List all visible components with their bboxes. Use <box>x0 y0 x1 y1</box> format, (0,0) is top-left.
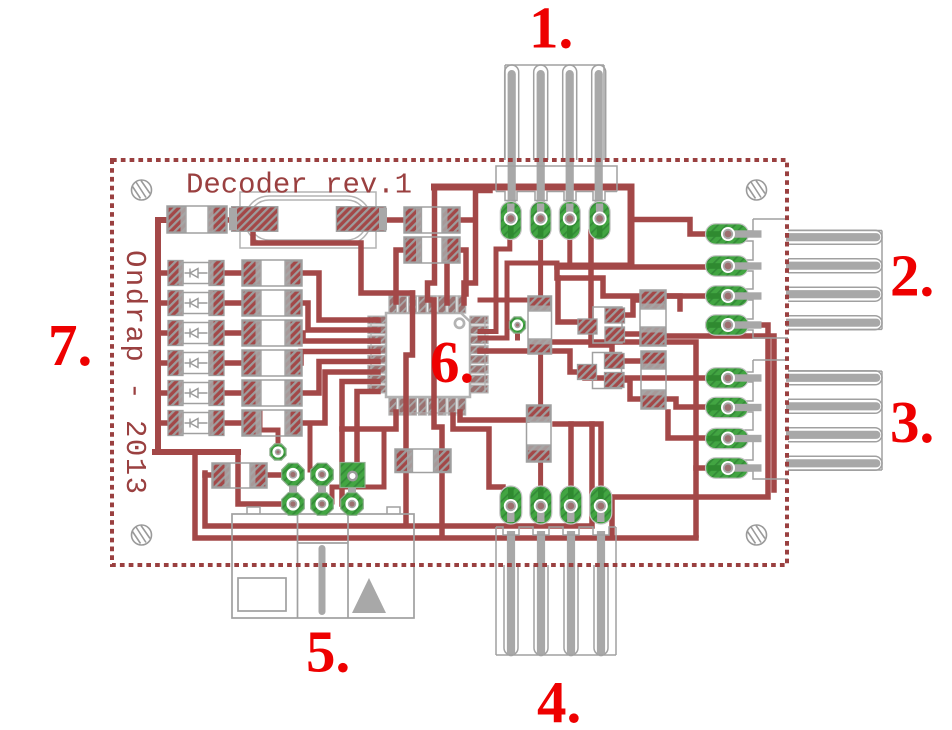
wire IC bottom to C2 <box>460 412 527 420</box>
wire D1 feed <box>158 270 168 276</box>
wire R8 feed <box>205 472 213 478</box>
wire GND bus left <box>158 220 168 452</box>
wire D6 to R7 <box>224 420 243 426</box>
wire R1 to crystal <box>226 217 232 223</box>
connector SV2 pins <box>786 230 882 330</box>
wire R5 to U1 pin <box>300 352 378 364</box>
connector SV4 pins <box>496 531 616 656</box>
wire D1 to R2 <box>224 270 243 276</box>
svg-text:6.: 6. <box>430 329 474 395</box>
resistor R3 <box>242 290 302 316</box>
wire T2 to R7a <box>621 358 642 364</box>
connector SV1 body <box>496 166 617 201</box>
wire IC bottom to SV4 pad1 <box>453 415 503 487</box>
pad X1 r1c1 <box>282 463 305 486</box>
transistor T2 <box>578 353 625 389</box>
wire right filler <box>665 336 774 490</box>
wire SV1 pad2 jog down <box>480 263 541 338</box>
crystal Q1 pads <box>229 207 387 232</box>
pad SV2-2 <box>706 256 762 277</box>
wire C1 bottom long right rail <box>541 342 696 535</box>
svg-text:4.: 4. <box>537 669 581 730</box>
pad SV3-1 <box>706 368 762 389</box>
pad X1 r1c3 square <box>340 463 365 488</box>
wire T1 to R6b <box>624 331 641 337</box>
capacitor C2 <box>527 405 552 462</box>
wire via1 to IC <box>515 329 520 338</box>
svg-text:5.: 5. <box>306 619 350 685</box>
resistor R2 <box>404 207 460 233</box>
wire D4 feed <box>158 360 168 366</box>
svg-text:Decoder rev.1: Decoder rev.1 <box>186 169 412 202</box>
wire D5 to R6 <box>224 390 243 396</box>
resistor R4 <box>242 320 302 346</box>
crystal Q1 outline <box>240 192 376 248</box>
pad SV2-1 <box>706 224 762 245</box>
diode D2 <box>168 291 224 316</box>
wire R3 to U1 pin <box>300 303 378 330</box>
wire junction to SV2 pad3 <box>557 267 708 296</box>
pad SV1-1 <box>500 202 521 240</box>
wire D6 feed <box>158 420 168 426</box>
resistor R3 <box>404 237 460 263</box>
drill hole H1 top-left <box>132 180 152 200</box>
wire R6 right stub <box>665 296 680 309</box>
wire SV1 pad2 to C1 <box>538 238 543 297</box>
wire IC bottom pin to left <box>342 412 396 429</box>
pad X1 r2c1 <box>282 493 305 516</box>
resistor R8 <box>212 463 267 488</box>
connector SV3 body <box>745 360 788 479</box>
wire to SV2 pad2 long <box>557 264 708 270</box>
wire SV1 pad4 stub <box>597 186 602 224</box>
op IC U1 pins <box>368 296 488 415</box>
wire SV4 pad4 up <box>592 424 601 487</box>
wire v2 crystal area through IC to R9 <box>428 187 443 535</box>
wire top rail horizontal <box>435 187 632 266</box>
resistor R9 <box>395 449 451 473</box>
connector SV2 body <box>745 219 788 338</box>
wire long bottom 1 <box>205 424 592 526</box>
diode D3 <box>168 321 224 346</box>
pad X1 gray links <box>289 475 356 505</box>
wire long bottom 2 <box>195 452 696 538</box>
pad X1 r2c3 <box>341 493 364 516</box>
wire R8 to pad r1c1 <box>266 472 283 478</box>
pad X1 r1c2 <box>311 463 334 486</box>
drill hole H3 bottom-left <box>132 525 152 545</box>
wire R2 to U1 pin <box>300 273 378 320</box>
wire SV1 pad2 jog right <box>541 263 557 267</box>
diode D5 <box>168 381 224 406</box>
wire R2 out <box>459 217 472 223</box>
svg-text:3.: 3. <box>890 389 934 455</box>
wire SV1 pad3 join rail <box>567 238 572 265</box>
wire crystal bottom to IC <box>253 229 413 293</box>
pad SV3-2 <box>706 397 762 418</box>
pad SV4-1 <box>500 486 522 524</box>
wire R3 right out <box>459 250 466 294</box>
wire U1 pin8 down to square pad <box>357 392 378 462</box>
connector SV3 pins <box>786 371 882 471</box>
wire SV4 pad3 up <box>568 424 574 487</box>
resistor R7 <box>641 351 666 409</box>
connector SV4 body <box>496 527 616 565</box>
wire to SV2 pad1 <box>631 220 708 235</box>
wire D2 to R3 <box>224 300 243 306</box>
wire R6 to U1 pin <box>300 362 378 394</box>
wire R4 to U1 pin <box>300 333 378 341</box>
wire C1 to C2 <box>538 353 543 406</box>
wire IC to T2 <box>480 351 578 372</box>
wire IC to C1 top <box>480 298 529 303</box>
diode D1 <box>168 261 224 286</box>
svg-text:2.: 2. <box>890 243 934 309</box>
via V1 <box>509 317 525 333</box>
wire to SV3 pad3 <box>668 412 708 438</box>
wire D3 feed <box>158 330 168 336</box>
wire T1 to R6a <box>624 300 641 315</box>
wire T2 to R7b <box>621 380 642 399</box>
wire to SV3 pad1 <box>585 375 708 381</box>
resistor R5 <box>242 350 302 376</box>
pad SV4-2 <box>530 486 552 524</box>
pad SV1-3 <box>559 202 580 240</box>
resistor R7 <box>242 410 302 436</box>
wire bus to corner <box>155 449 238 455</box>
svg-text:7.: 7. <box>48 312 92 378</box>
transistor T1 <box>578 307 625 343</box>
resistor R1 <box>167 206 227 233</box>
wire via2 up <box>260 412 278 450</box>
board outline dotted <box>112 160 787 565</box>
pad SV4-3 <box>560 486 582 524</box>
connector SV1 pins <box>505 65 606 206</box>
wire rail to SV3 pad4 <box>696 465 706 471</box>
op IC U1 body (QFP-32) <box>386 313 470 397</box>
wire U1 pin7 down to pad r2c3 <box>342 382 378 505</box>
wire IC top stub <box>444 262 450 303</box>
wire rail branch down to T2 <box>591 232 612 352</box>
diode D4 <box>168 351 224 376</box>
wire ring around SV3 <box>612 325 768 535</box>
wire C2 to SV4 pad2 <box>538 461 543 487</box>
via V2 <box>270 444 286 460</box>
capacitor C1 <box>528 296 552 354</box>
drill hole H2 top-right <box>747 180 767 200</box>
pad SV2-3 <box>706 286 762 307</box>
connector X1 body <box>232 507 414 618</box>
wire oct r1c2 feed <box>308 423 313 470</box>
pad SV1-4 <box>589 202 610 240</box>
wire D3 to R4 <box>224 330 243 336</box>
wire to pad row2 col1 <box>238 452 285 504</box>
wire SV1 pad1 down <box>480 238 510 332</box>
diode D6 <box>168 411 224 436</box>
pad SV4-4 <box>590 486 612 524</box>
pad SV3-4 <box>706 458 762 479</box>
resistor R2 <box>242 260 302 286</box>
drill hole H4 bottom-right <box>747 525 767 545</box>
wire IC through long <box>406 293 413 524</box>
wire R3 left out <box>396 250 405 302</box>
wire R7 to U1 pin <box>300 372 378 423</box>
pad SV1-2 <box>530 202 551 240</box>
wire down to pad r2c2 <box>332 429 384 502</box>
pad X1 r2c2 <box>311 493 334 516</box>
resistor R6 <box>640 290 666 346</box>
wire to SV3 pad2 <box>665 399 708 407</box>
pad SV2-4 <box>706 315 762 336</box>
resistor R6 <box>242 380 302 406</box>
svg-text:1.: 1. <box>529 0 573 61</box>
wire junction down to T1 <box>558 278 578 322</box>
wire D2 feed <box>158 300 168 306</box>
wire D4 to R5 <box>224 360 243 366</box>
wire D5 feed <box>158 390 168 396</box>
wire vertical v1 to IC <box>464 191 490 304</box>
pad SV3-3 <box>706 428 762 449</box>
wire crystal to R2 <box>385 217 405 223</box>
